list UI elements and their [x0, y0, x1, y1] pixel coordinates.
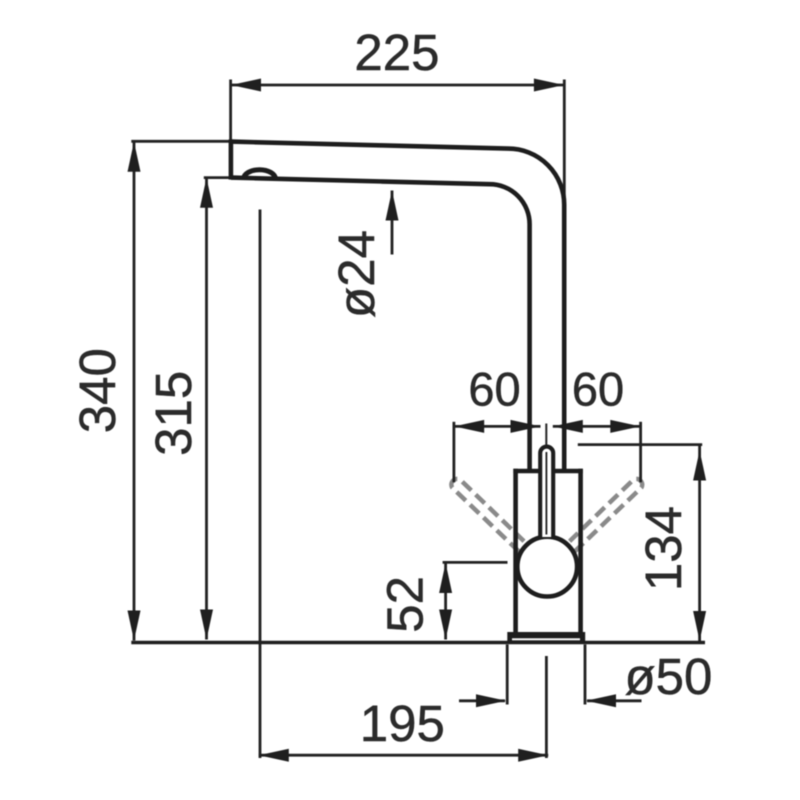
svg-text:60: 60	[572, 363, 624, 416]
svg-text:52: 52	[377, 576, 434, 633]
svg-text:60: 60	[468, 363, 520, 416]
svg-text:340: 340	[69, 348, 126, 433]
svg-text:134: 134	[635, 506, 692, 591]
svg-text:ø50: ø50	[624, 648, 712, 705]
svg-text:ø24: ø24	[328, 230, 385, 318]
svg-text:195: 195	[360, 695, 445, 752]
svg-text:315: 315	[145, 371, 202, 456]
svg-text:225: 225	[354, 24, 439, 81]
